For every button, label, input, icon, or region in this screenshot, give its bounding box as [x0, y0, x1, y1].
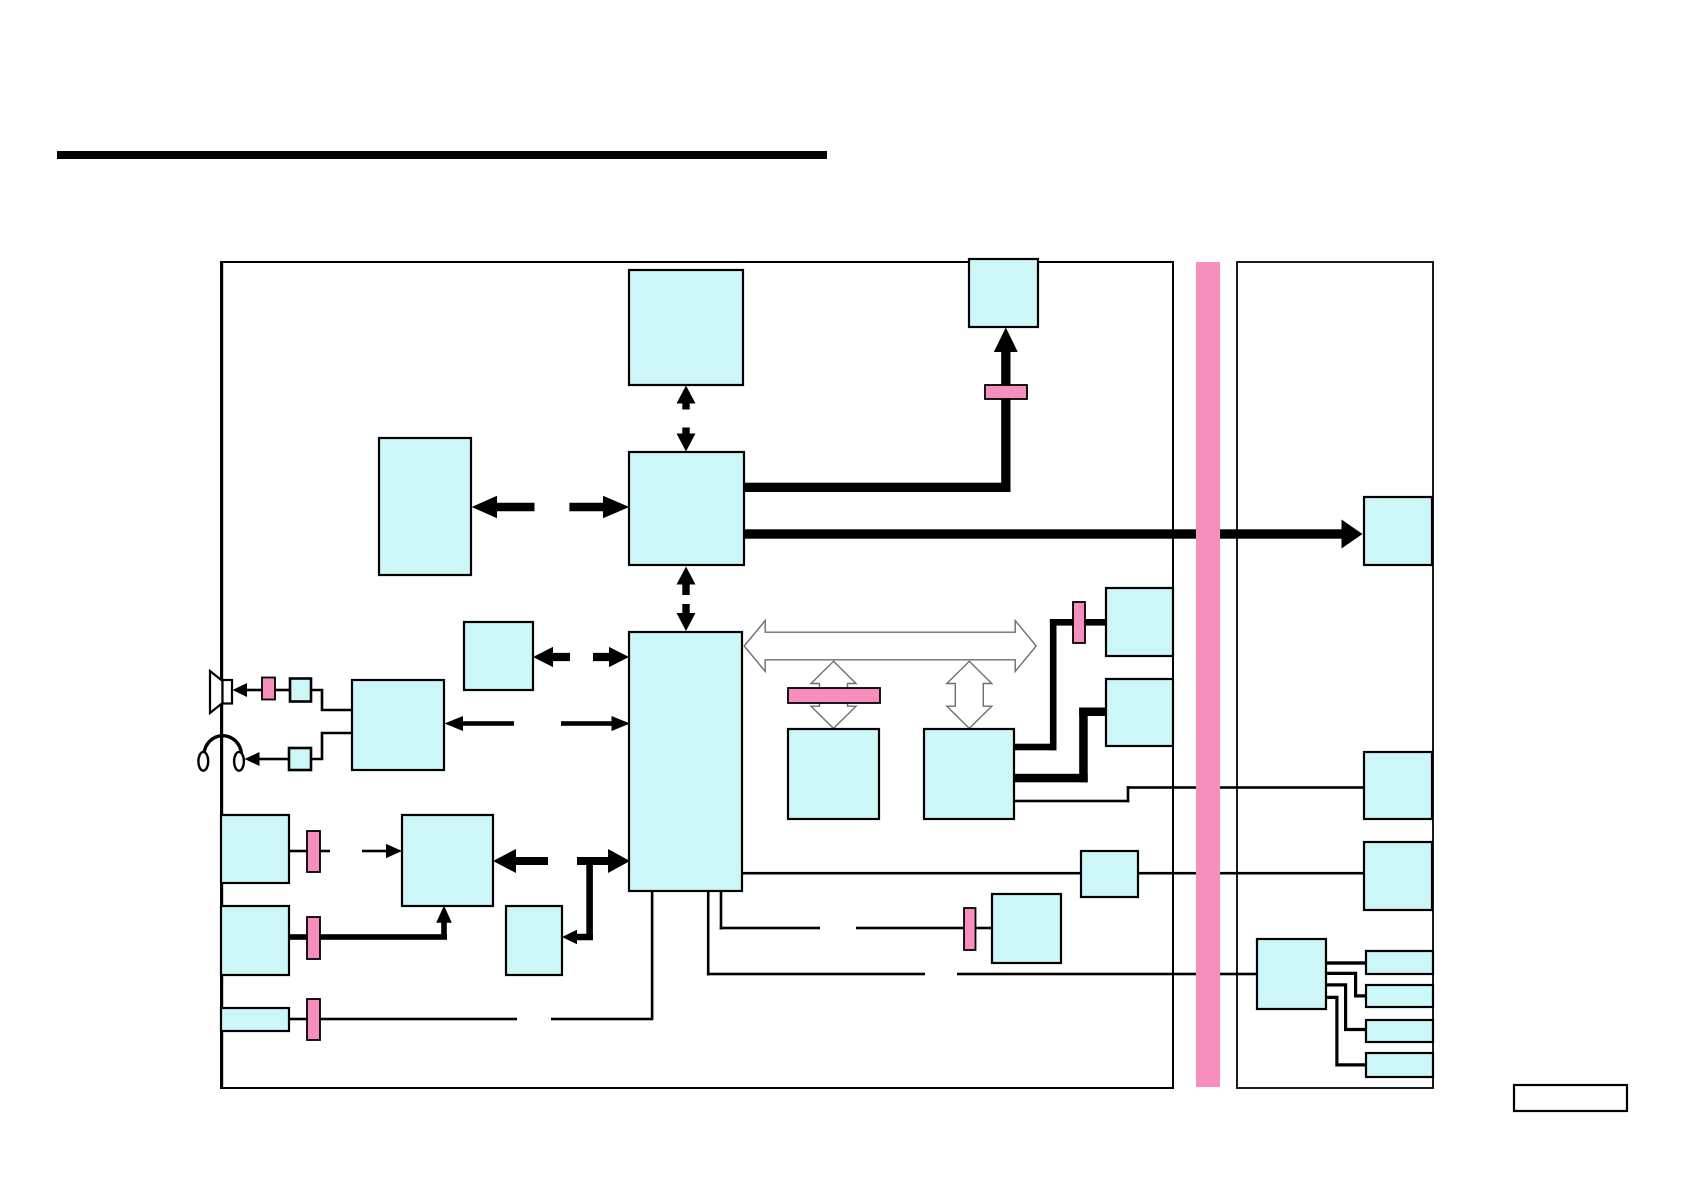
- right section frame: [1237, 262, 1433, 1088]
- wire y974 left part: [707, 973, 925, 976]
- wire thick B path1 vertical x1053: [1050, 619, 1057, 750]
- pink jumper L1: [307, 831, 320, 872]
- wire thick B path1 horiz y622: [1050, 619, 1106, 626]
- arrow fat left y657: [533, 647, 570, 667]
- wire cluster fan 2: [1326, 973, 1366, 996]
- box L3: [221, 1008, 289, 1031]
- headphone icon band: [204, 736, 242, 754]
- box small y851: [1081, 851, 1138, 897]
- box C right section: [1364, 497, 1432, 565]
- arrow up into DSP bottom: [436, 906, 452, 923]
- wire headphone elbow to amp: [311, 733, 352, 759]
- box central tall: [629, 632, 742, 891]
- box B below bus: [924, 729, 1014, 819]
- speaker icon body: [223, 680, 233, 704]
- box DSP left column: [402, 815, 493, 906]
- wire thick B path2 vertical x1083: [1079, 708, 1088, 783]
- wire thin y851 from L1: [289, 850, 330, 853]
- wire y928 left part: [720, 927, 820, 930]
- arrow fat left y861 into DSP: [493, 849, 548, 873]
- wire y974 right part into cluster: [957, 973, 1257, 976]
- box L1: [221, 815, 289, 883]
- box D right section: [1364, 752, 1432, 819]
- box R2: [1366, 951, 1433, 974]
- wire thin y1019 from L3: [289, 1018, 517, 1021]
- box E right section: [1364, 842, 1432, 910]
- arrow up pair1 x686: [677, 386, 696, 410]
- box small mid-left: [464, 622, 533, 690]
- box R4: [1366, 1020, 1433, 1042]
- pink jumper L2: [307, 917, 320, 959]
- wire thin arrow y851 into DSP: [362, 850, 389, 853]
- wire vertical x708 from central bottom: [707, 891, 710, 976]
- pink jumper horizontal wide: [788, 688, 880, 703]
- wire speaker elbow to amp: [311, 690, 352, 710]
- wire y801 from box B: [1014, 800, 1129, 803]
- pink power rail vertical: [1196, 262, 1220, 1087]
- wire headphone line: [258, 758, 291, 761]
- box cluster: [1257, 939, 1326, 1009]
- wire y787 into box D: [1127, 786, 1364, 789]
- open double arrow vertical right: [947, 661, 992, 728]
- arrow fat left y507: [472, 496, 535, 518]
- arrow down pair1 x686: [677, 428, 696, 452]
- box R5: [1366, 1053, 1433, 1077]
- wire cluster fan 4: [1326, 997, 1366, 1065]
- wire thick y937 from L2: [289, 934, 447, 940]
- open double arrow horizontal: [744, 621, 1036, 672]
- wire vertical x721 from central bottom: [720, 891, 723, 930]
- arrow into speaker: [233, 683, 248, 697]
- wire thin y1019 right part: [551, 1018, 653, 1021]
- box mid right 2: [1106, 679, 1173, 746]
- arrow fat right y657: [593, 647, 629, 667]
- wire vertical x1128: [1127, 786, 1130, 802]
- arrow right into box C: [1342, 520, 1363, 549]
- wire thin arrow amp-left y723: [461, 721, 514, 726]
- box headphone coupling: [289, 748, 311, 770]
- arrow up into top connector box: [994, 328, 1018, 353]
- title underline: [57, 151, 827, 159]
- speaker icon cone: [210, 671, 223, 713]
- arrow up pair2 x686: [677, 567, 696, 596]
- headphone icon right pad: [234, 752, 244, 771]
- pink jumper L3: [307, 999, 320, 1040]
- box A below bus: [788, 729, 879, 819]
- box y894: [992, 894, 1061, 963]
- wire thick B path2 horiz y712: [1079, 708, 1106, 717]
- box R3: [1366, 985, 1433, 1007]
- wire thin arrow central-right y723: [561, 721, 613, 726]
- pink jumper mid vertical: [1073, 602, 1085, 643]
- box second from top: [629, 452, 744, 565]
- arrow fat right y861 into central: [577, 849, 630, 873]
- wire cluster fan 3: [1326, 985, 1366, 1030]
- pink jumper y928: [964, 908, 976, 950]
- open double arrow vertical left: [811, 661, 856, 728]
- wire thick y487 to vertical: [743, 483, 1011, 492]
- wire vertical x652 to central bottom: [651, 891, 654, 1020]
- wire speaker line: [244, 689, 292, 692]
- pink jumper top: [985, 385, 1027, 399]
- arrow left y937 into small box: [562, 930, 593, 944]
- box left tall: [379, 438, 471, 575]
- wire y873 central to box E: [742, 872, 1364, 875]
- arrow fat right y507: [569, 496, 629, 518]
- box top connector: [969, 259, 1038, 327]
- wire vertical x590: [586, 861, 593, 937]
- box top memory: [629, 270, 743, 385]
- arrow into headphone: [245, 752, 260, 766]
- wire cluster fan 1: [1326, 961, 1366, 964]
- arrow down pair2 x686: [677, 604, 696, 631]
- wire thick vertical x1006: [1001, 351, 1010, 491]
- box L2: [221, 906, 289, 975]
- box speaker coupling: [290, 679, 311, 702]
- box audio amp: [352, 680, 444, 770]
- wire shaft up into DSP bottom: [441, 921, 447, 938]
- wire thick B path1 horiz y747: [1014, 744, 1057, 751]
- wire thick y534 long: [743, 529, 1342, 538]
- note box bottom right: [1514, 1085, 1627, 1111]
- main board frame: [221, 262, 1173, 1088]
- pink jumper speaker: [262, 678, 275, 700]
- wire y928 right part: [856, 927, 992, 930]
- wire thick B path2 horiz y778: [1014, 774, 1088, 783]
- box mid right 1: [1106, 588, 1173, 656]
- headphone icon left pad: [198, 752, 208, 771]
- box small y906: [506, 906, 562, 975]
